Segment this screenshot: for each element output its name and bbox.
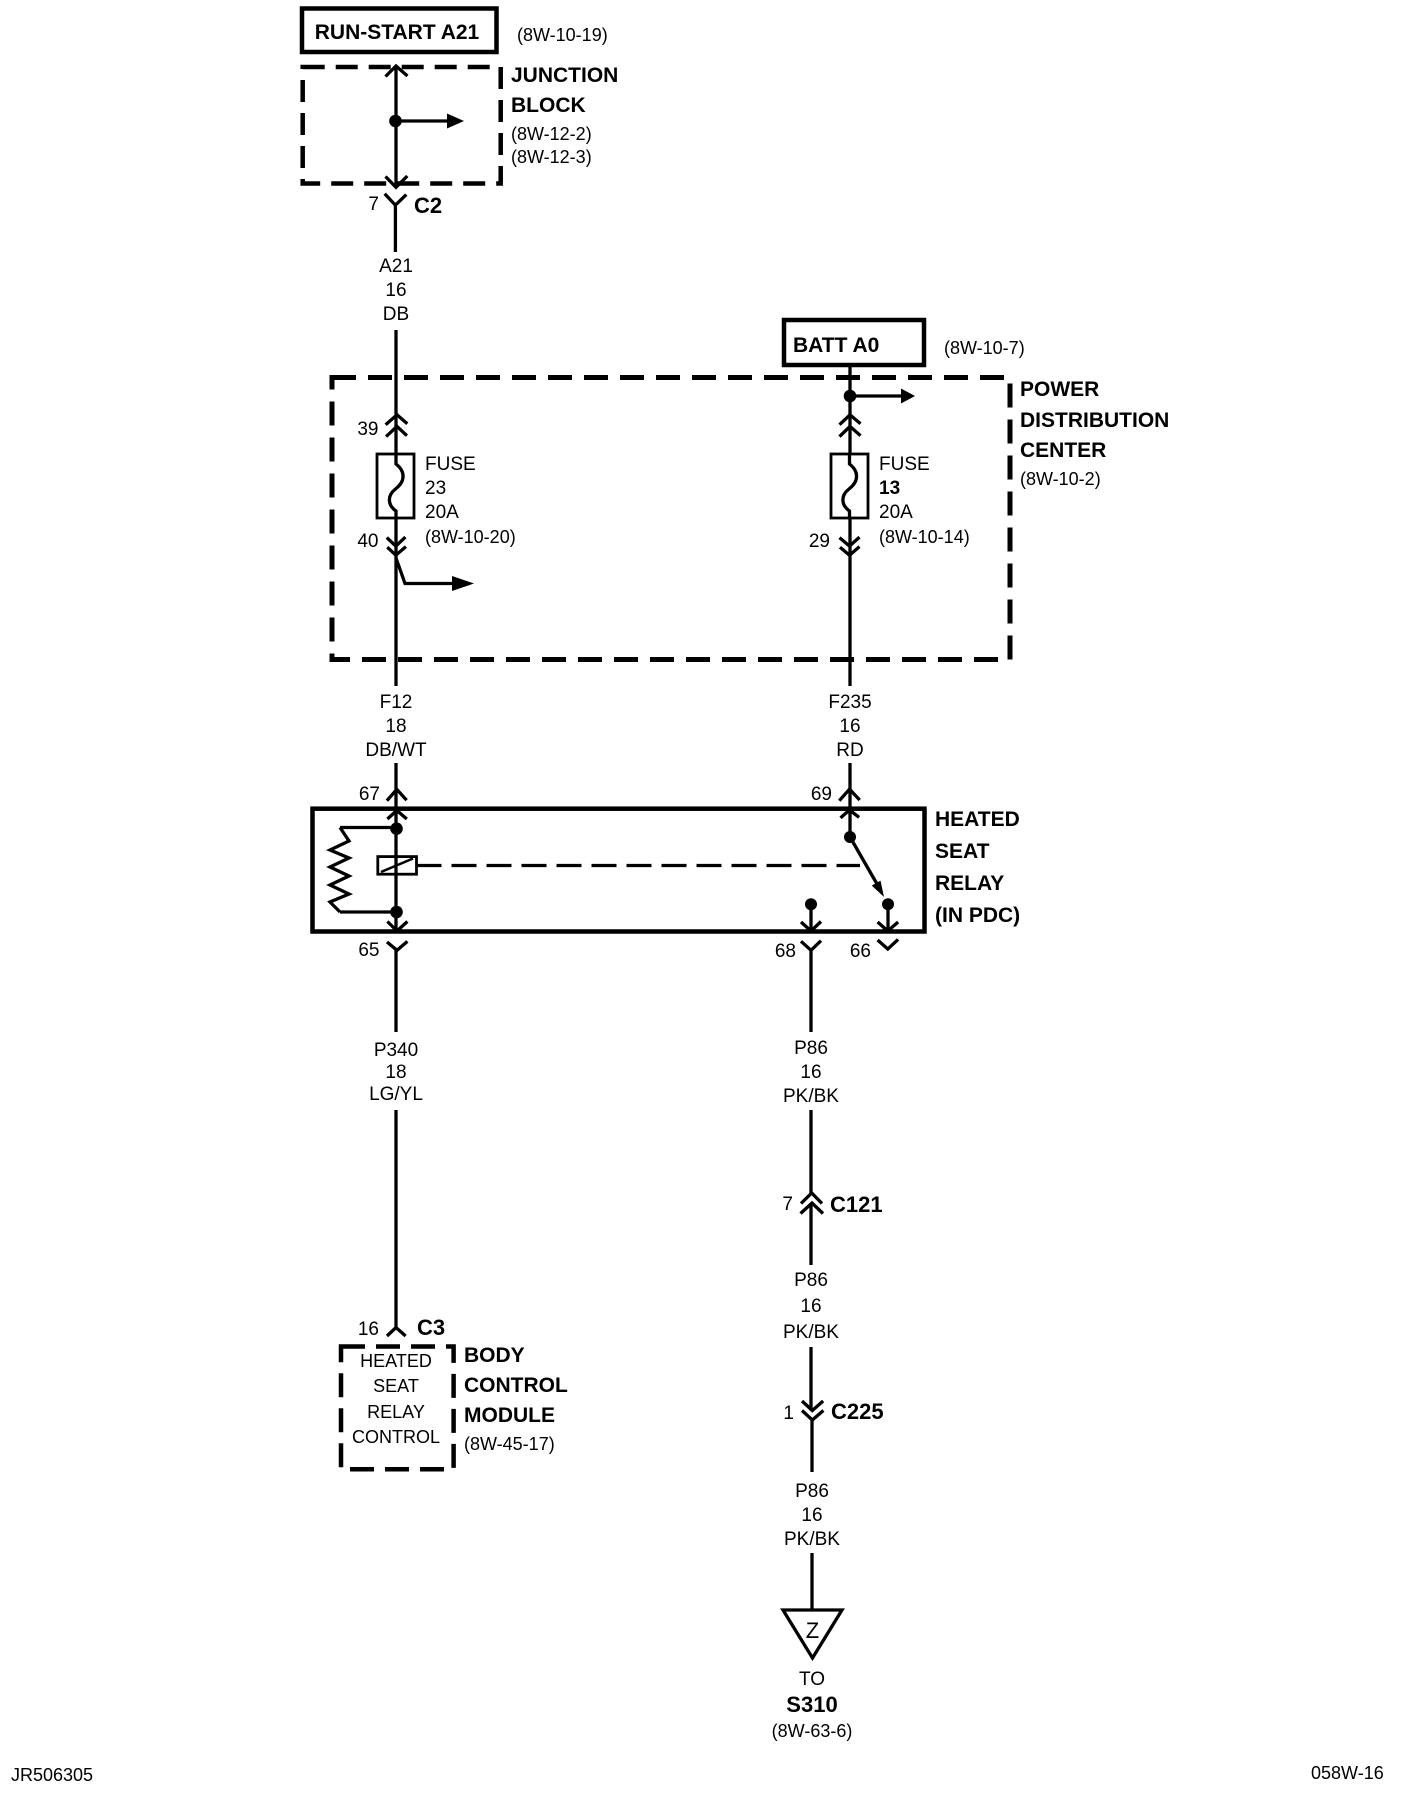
- svg-text:S310: S310: [786, 1692, 837, 1717]
- svg-text:POWER: POWER: [1020, 378, 1099, 401]
- svg-text:18: 18: [385, 716, 406, 737]
- svg-text:18: 18: [385, 1062, 406, 1083]
- svg-text:7: 7: [782, 1194, 793, 1215]
- svg-text:C121: C121: [830, 1192, 883, 1217]
- svg-text:CONTROL: CONTROL: [352, 1427, 440, 1447]
- svg-text:16: 16: [839, 716, 860, 737]
- svg-text:PK/BK: PK/BK: [783, 1086, 839, 1107]
- svg-text:058W-16: 058W-16: [1311, 1763, 1384, 1783]
- svg-text:PK/BK: PK/BK: [783, 1322, 839, 1343]
- svg-text:FUSE: FUSE: [425, 454, 476, 475]
- svg-text:67: 67: [359, 784, 380, 805]
- svg-text:DB: DB: [383, 304, 409, 325]
- svg-text:(8W-10-20): (8W-10-20): [425, 527, 516, 547]
- svg-text:CONTROL: CONTROL: [464, 1374, 568, 1397]
- svg-text:16: 16: [801, 1505, 822, 1526]
- svg-text:(8W-10-19): (8W-10-19): [517, 25, 608, 45]
- svg-text:F12: F12: [380, 692, 413, 713]
- svg-text:A21: A21: [379, 256, 413, 277]
- svg-text:JUNCTION: JUNCTION: [511, 64, 618, 87]
- svg-text:FUSE: FUSE: [879, 454, 930, 475]
- svg-text:(8W-12-2): (8W-12-2): [511, 124, 592, 144]
- svg-text:DB/WT: DB/WT: [365, 740, 427, 761]
- svg-text:F235: F235: [828, 692, 871, 713]
- svg-text:HEATED: HEATED: [360, 1351, 432, 1371]
- svg-text:P86: P86: [794, 1270, 828, 1291]
- svg-text:65: 65: [358, 940, 379, 961]
- svg-text:7: 7: [368, 194, 379, 215]
- svg-text:RELAY: RELAY: [935, 872, 1004, 895]
- svg-text:P86: P86: [794, 1038, 828, 1059]
- svg-text:16: 16: [385, 280, 406, 301]
- svg-text:BODY: BODY: [464, 1344, 525, 1367]
- svg-text:BLOCK: BLOCK: [511, 94, 586, 117]
- svg-text:13: 13: [879, 478, 900, 499]
- svg-text:P340: P340: [374, 1040, 418, 1061]
- svg-text:16: 16: [358, 1319, 379, 1340]
- svg-text:(8W-10-2): (8W-10-2): [1020, 469, 1101, 489]
- svg-text:68: 68: [775, 941, 796, 962]
- svg-text:16: 16: [800, 1296, 821, 1317]
- svg-text:23: 23: [425, 478, 446, 499]
- svg-text:(8W-63-6): (8W-63-6): [772, 1721, 853, 1741]
- svg-text:C3: C3: [417, 1315, 445, 1340]
- svg-text:(8W-45-17): (8W-45-17): [464, 1434, 555, 1454]
- svg-text:TO: TO: [799, 1669, 825, 1690]
- svg-text:1: 1: [783, 1403, 794, 1424]
- svg-text:RELAY: RELAY: [367, 1402, 425, 1422]
- svg-text:(8W-10-7): (8W-10-7): [944, 338, 1025, 358]
- svg-text:20A: 20A: [425, 502, 459, 523]
- svg-text:39: 39: [357, 419, 378, 440]
- svg-text:P86: P86: [795, 1481, 829, 1502]
- svg-text:66: 66: [850, 941, 871, 962]
- svg-text:Z: Z: [806, 1618, 819, 1643]
- svg-text:PK/BK: PK/BK: [784, 1529, 840, 1550]
- svg-text:RD: RD: [836, 740, 863, 761]
- svg-text:(8W-12-3): (8W-12-3): [511, 147, 592, 167]
- svg-text:MODULE: MODULE: [464, 1404, 555, 1427]
- svg-text:HEATED: HEATED: [935, 808, 1020, 831]
- svg-text:RUN-START A21: RUN-START A21: [315, 21, 480, 44]
- svg-text:SEAT: SEAT: [373, 1376, 419, 1396]
- svg-text:LG/YL: LG/YL: [369, 1084, 423, 1105]
- svg-text:DISTRIBUTION: DISTRIBUTION: [1020, 409, 1169, 432]
- svg-text:BATT A0: BATT A0: [793, 334, 879, 357]
- svg-text:C225: C225: [831, 1399, 884, 1424]
- svg-text:(8W-10-14): (8W-10-14): [879, 527, 970, 547]
- svg-text:29: 29: [809, 531, 830, 552]
- svg-text:SEAT: SEAT: [935, 840, 990, 863]
- svg-text:20A: 20A: [879, 502, 913, 523]
- svg-text:CENTER: CENTER: [1020, 439, 1106, 462]
- svg-text:16: 16: [800, 1062, 821, 1083]
- svg-text:69: 69: [811, 784, 832, 805]
- svg-text:40: 40: [357, 531, 378, 552]
- svg-text:JR506305: JR506305: [11, 1765, 93, 1785]
- svg-text:(IN PDC): (IN PDC): [935, 904, 1020, 927]
- svg-text:C2: C2: [414, 193, 442, 218]
